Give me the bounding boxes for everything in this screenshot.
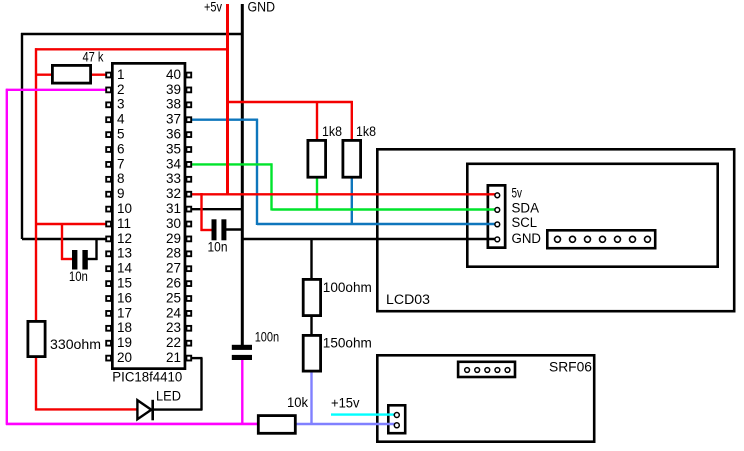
LCD03 expansion hole 4 xyxy=(600,236,606,242)
wire resistor R3 to SCL xyxy=(351,178,353,226)
wire 5v net pin 32 to LCD03 xyxy=(190,193,496,195)
pin 26 xyxy=(166,276,191,291)
pin 32 xyxy=(166,186,191,201)
capacitor C1 10n left plate xyxy=(72,250,77,270)
svg-text:33: 33 xyxy=(166,171,181,186)
pin 20 xyxy=(106,350,132,365)
LCD03 pin SDA xyxy=(495,201,539,216)
pin 35 xyxy=(166,141,191,156)
pin 22 xyxy=(166,335,191,350)
pin 6 xyxy=(106,141,124,156)
pin 16 xyxy=(106,290,132,305)
svg-text:150ohm: 150ohm xyxy=(323,336,372,351)
LCD03 expansion hole 2 xyxy=(570,236,576,242)
svg-text:LCD03: LCD03 xyxy=(386,292,430,307)
wire violet 10k to SRF06 xyxy=(296,423,395,425)
wire magenta to pin 2 xyxy=(6,89,106,91)
wire +5v rail vertical xyxy=(226,4,229,194)
pin 29 xyxy=(166,231,191,246)
resistor R5 150ohm xyxy=(303,335,320,371)
wire +5v to pin 11 xyxy=(35,223,106,225)
svg-text:37: 37 xyxy=(166,112,181,127)
svg-text:SCL: SCL xyxy=(512,215,538,230)
pin 21 xyxy=(166,350,191,365)
pin 7 xyxy=(106,156,124,171)
svg-text:20: 20 xyxy=(117,350,132,365)
pin 10 xyxy=(106,201,132,216)
LCD03 expansion hole 5 xyxy=(615,236,621,242)
svg-text:1k8: 1k8 xyxy=(356,124,376,139)
pin 31 xyxy=(166,201,191,216)
svg-text:8: 8 xyxy=(117,171,125,186)
wire SCL vertical xyxy=(256,119,258,225)
svg-text:10: 10 xyxy=(117,201,132,216)
LCD03 pin SCL xyxy=(495,215,538,230)
svg-text:LED: LED xyxy=(156,389,181,404)
wire LED cathode to pin 21 xyxy=(152,408,202,410)
wire resistor R2 to SDA xyxy=(316,178,318,211)
svg-text:31: 31 xyxy=(166,201,181,216)
wire vertical pin 21 xyxy=(200,358,202,411)
LED D1 xyxy=(137,400,151,419)
pin 30 xyxy=(166,216,191,231)
capacitor C2 10n left plate xyxy=(212,219,217,240)
pin 23 xyxy=(166,320,191,335)
svg-text:SDA: SDA xyxy=(512,201,540,216)
svg-text:26: 26 xyxy=(166,276,181,291)
wire +5v to resistor 47k xyxy=(35,73,52,75)
wire 5v to capacitor C2 vertical xyxy=(200,193,202,231)
svg-text:5v: 5v xyxy=(512,186,523,201)
svg-text:9: 9 xyxy=(117,186,125,201)
pin 36 xyxy=(166,127,191,142)
IC U1 PIC18f4410 body xyxy=(112,63,185,368)
wire capacitor branch vertical red xyxy=(61,223,63,260)
capacitor C2 10n right plate xyxy=(221,219,226,240)
wire SCL net to LCD03 xyxy=(257,223,496,225)
svg-text:32: 32 xyxy=(166,186,181,201)
capacitor C3 100n top plate xyxy=(232,345,252,350)
LCD03 module outline xyxy=(377,149,734,311)
SRF06 module outline xyxy=(377,355,594,441)
svg-text:6: 6 xyxy=(117,141,125,156)
wire SDA net to LCD03 xyxy=(272,208,497,210)
svg-text:10n: 10n xyxy=(69,269,88,284)
LCD03 inner board xyxy=(467,164,717,267)
svg-text:10n: 10n xyxy=(208,240,228,255)
pin 19 xyxy=(106,335,132,350)
svg-text:27: 27 xyxy=(166,261,181,276)
svg-text:GND: GND xyxy=(512,231,542,246)
resistor R2 1k8 xyxy=(308,140,326,177)
svg-text:13: 13 xyxy=(117,246,132,261)
svg-text:17: 17 xyxy=(117,305,132,320)
pin 9 xyxy=(106,186,124,201)
resistor 330ohm xyxy=(28,321,45,356)
wire capacitor C2 to GND rail xyxy=(226,228,243,230)
svg-text:28: 28 xyxy=(166,246,181,261)
SRF06 connector hole 1 xyxy=(465,368,470,373)
svg-text:3: 3 xyxy=(117,97,125,112)
svg-text:39: 39 xyxy=(166,82,181,97)
svg-text:18: 18 xyxy=(117,320,132,335)
wire magenta left vertical xyxy=(6,89,8,425)
pin 5 xyxy=(106,127,124,142)
capacitor C1 10n right plate xyxy=(82,250,87,270)
svg-text:100ohm: 100ohm xyxy=(323,280,372,295)
resistor R6 10k xyxy=(258,416,295,434)
LCD03 expansion hole 1 xyxy=(555,236,561,242)
svg-text:12: 12 xyxy=(117,231,132,246)
SRF06 connector hole 5 xyxy=(505,368,510,373)
LCD03 I2C connector xyxy=(488,185,505,247)
wire GND net to LCD03 xyxy=(242,238,496,240)
pin 12 xyxy=(106,231,132,246)
svg-text:21: 21 xyxy=(166,350,181,365)
LCD03 expansion hole 6 xyxy=(630,236,636,242)
pin 17 xyxy=(106,305,132,320)
LCD03 pin 5v xyxy=(495,186,522,201)
svg-text:47 k: 47 k xyxy=(83,50,104,65)
wire to resistor R3 1k8 xyxy=(351,101,353,140)
wire capacitor C1 GND vertical xyxy=(95,238,97,260)
svg-text:19: 19 xyxy=(117,335,132,350)
LCD03 pin GND xyxy=(495,231,541,246)
LED cathode bar xyxy=(151,400,154,421)
svg-text:11: 11 xyxy=(117,216,131,231)
wire resistor 100ohm to 150ohm xyxy=(310,316,312,335)
svg-text:23: 23 xyxy=(166,320,181,335)
SRF06 connector hole 2 xyxy=(475,368,480,373)
wire to resistor R2 1k8 xyxy=(316,101,318,140)
pin 27 xyxy=(166,261,191,276)
wire GND net to resistor 100ohm xyxy=(310,238,312,279)
resistor 47k xyxy=(52,65,90,83)
svg-text:22: 22 xyxy=(166,335,181,350)
svg-text:40: 40 xyxy=(166,67,181,82)
wire magenta from capacitor 100n xyxy=(241,359,243,424)
svg-text:10k: 10k xyxy=(287,395,308,410)
svg-text:PIC18f4410: PIC18f4410 xyxy=(112,370,182,385)
wire capacitor C1 to GND xyxy=(87,258,98,260)
pin 2 xyxy=(106,82,124,97)
svg-text:14: 14 xyxy=(117,261,133,276)
SRF06 top connector xyxy=(458,362,515,377)
wire pin 31 to GND rail xyxy=(190,208,243,210)
wire GND rail vertical xyxy=(241,4,244,346)
capacitor C3 100n bottom plate xyxy=(232,355,252,360)
svg-text:1k8: 1k8 xyxy=(322,124,342,139)
resistor R4 100ohm xyxy=(303,279,320,315)
LCD03 expansion hole 3 xyxy=(585,236,591,242)
wire +5v left vertical xyxy=(35,48,37,321)
pin 15 xyxy=(106,276,132,291)
svg-text:330ohm: 330ohm xyxy=(50,337,101,352)
pin 11 xyxy=(106,216,131,231)
svg-text:5: 5 xyxy=(117,127,125,142)
svg-text:4: 4 xyxy=(117,112,125,127)
pin 1 xyxy=(106,67,124,82)
pin 40 xyxy=(166,67,191,82)
pin 3 xyxy=(106,97,124,112)
pin 13 xyxy=(106,246,132,261)
pin 38 xyxy=(166,97,191,112)
pin 33 xyxy=(166,171,191,186)
svg-text:2: 2 xyxy=(117,82,125,97)
svg-text:30: 30 xyxy=(166,216,181,231)
wire left GND vertical xyxy=(21,33,23,239)
pin 14 xyxy=(106,261,132,276)
svg-text:100n: 100n xyxy=(255,330,280,345)
wire +5v top horizontal xyxy=(35,48,227,50)
SRF06 pin signal xyxy=(394,423,399,428)
svg-text:24: 24 xyxy=(166,305,182,320)
wire GND to pin 12 xyxy=(22,238,106,240)
wire resistor 150ohm down violet xyxy=(310,372,312,426)
pin 18 xyxy=(106,320,132,335)
wire pin 21 stub xyxy=(190,357,203,359)
wire to LED anode xyxy=(35,408,138,410)
wire resistor 330ohm to LED xyxy=(35,357,37,411)
svg-text:+5v: +5v xyxy=(204,0,222,15)
pin 24 xyxy=(166,305,191,320)
pin 25 xyxy=(166,290,191,305)
wire SCL from pin 37 xyxy=(190,118,258,120)
pin 8 xyxy=(106,171,124,186)
wire resistor 47k to pin 1 xyxy=(91,73,106,75)
wire magenta bottom bus xyxy=(6,423,258,426)
svg-text:36: 36 xyxy=(166,127,181,142)
svg-text:GND: GND xyxy=(248,0,276,15)
LCD03 expansion hole 7 xyxy=(645,236,651,242)
svg-text:35: 35 xyxy=(166,141,181,156)
SRF06 side connector xyxy=(388,405,405,433)
pin 28 xyxy=(166,246,191,261)
wire top GND horizontal to rail xyxy=(21,33,242,35)
SRF06 connector hole 4 xyxy=(495,368,500,373)
wire to capacitor C1 left plate xyxy=(61,258,73,260)
wire to capacitor C2 left plate xyxy=(201,229,213,231)
svg-text:38: 38 xyxy=(166,97,181,112)
wire +15v cyan to SRF06 xyxy=(331,413,395,415)
svg-text:SRF06: SRF06 xyxy=(549,360,592,375)
wire SDA vertical xyxy=(270,163,272,210)
pin 4 xyxy=(106,112,125,127)
svg-text:15: 15 xyxy=(117,276,132,291)
svg-text:34: 34 xyxy=(166,156,182,171)
svg-text:1: 1 xyxy=(117,67,125,82)
svg-text:29: 29 xyxy=(166,231,181,246)
svg-text:16: 16 xyxy=(117,290,132,305)
svg-text:7: 7 xyxy=(117,156,125,171)
resistor R3 1k8 xyxy=(343,140,361,177)
SRF06 pin +15v xyxy=(394,413,399,418)
LCD03 expansion connector xyxy=(547,230,655,248)
pin 34 xyxy=(166,156,191,171)
wire SDA from pin 34 xyxy=(190,163,273,165)
svg-text:+15v: +15v xyxy=(331,396,360,411)
wire +5v to pullups xyxy=(226,101,353,103)
SRF06 connector hole 3 xyxy=(485,368,490,373)
svg-text:25: 25 xyxy=(166,290,181,305)
pin 37 xyxy=(166,112,191,127)
pin 39 xyxy=(166,82,191,97)
